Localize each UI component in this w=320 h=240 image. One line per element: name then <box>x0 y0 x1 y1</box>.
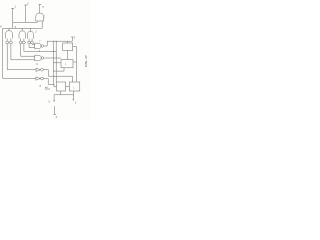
terminal stub S1 <box>53 106 57 119</box>
wire cone B1 output <box>43 70 72 82</box>
svg-text:FIG. 17: FIG. 17 <box>84 55 88 67</box>
svg-text:1: 1 <box>44 16 46 19</box>
wire from G3 to gate A1 <box>32 43 35 46</box>
wire K3 bottom out <box>54 91 61 101</box>
op-amp U1 (gate pointing up) <box>36 13 44 21</box>
svg-text:8: 8 <box>48 87 50 91</box>
input terminal T2 <box>24 2 29 23</box>
wire L3 <box>21 46 35 56</box>
arrow out1 <box>53 100 54 102</box>
gate G2 (NAND up, middle) <box>19 28 26 46</box>
wire between K3 K4 bottoms <box>61 94 74 96</box>
svg-text:8: 8 <box>40 84 42 88</box>
svg-text:2: 2 <box>35 29 37 33</box>
svg-text:1: 1 <box>14 5 16 9</box>
svg-text:2: 2 <box>75 101 77 105</box>
svg-text:4: 4 <box>39 49 41 53</box>
svg-text:7: 7 <box>39 39 41 43</box>
buffer cone B2 <box>36 77 43 80</box>
and-gate A1 <box>35 43 41 49</box>
wire bus A <box>52 41 55 85</box>
wire bus V0 <box>3 28 36 78</box>
wire cone B2 output <box>43 79 56 87</box>
wire L1 <box>7 46 36 69</box>
input terminal T1 <box>11 5 16 29</box>
wire K1 right <box>73 46 77 48</box>
wire into box K1 top <box>67 41 69 43</box>
wire H2 <box>3 21 43 28</box>
gate U1 output terminal <box>38 5 44 13</box>
box K3 <box>57 82 66 91</box>
wire K1 to K2 <box>67 51 69 60</box>
wire K4 bottom out <box>72 91 75 100</box>
gate G1 (NAND up, left) <box>6 28 13 46</box>
wire K2 right <box>73 61 77 63</box>
svg-text:9: 9 <box>36 62 38 66</box>
svg-text:2: 2 <box>74 36 76 40</box>
svg-text:3: 3 <box>27 2 29 6</box>
svg-text:1: 1 <box>73 86 75 89</box>
terminal above box K1 <box>71 36 76 42</box>
wire L2 <box>11 46 35 60</box>
wire H1 <box>13 21 38 22</box>
and-gate A2 <box>35 55 41 61</box>
wire K3 to K4 <box>66 86 70 88</box>
junction label mark <box>45 87 47 89</box>
wire A1 output <box>43 41 72 46</box>
wire bus Bv tap to K2 <box>53 61 61 64</box>
svg-text:1: 1 <box>65 63 67 66</box>
svg-text:4: 4 <box>56 115 58 119</box>
gate G3 (NAND up, right) <box>28 28 35 47</box>
wire K2 bottom <box>53 68 64 72</box>
wire bus R <box>76 47 78 82</box>
box K2 <box>61 60 73 68</box>
svg-text:6: 6 <box>49 100 51 104</box>
wire A2 output to K2 <box>44 57 61 59</box>
wire bus Bv <box>55 41 58 82</box>
wire L4 <box>24 46 56 51</box>
svg-text:5: 5 <box>42 5 44 9</box>
box K1 <box>63 43 73 51</box>
arrow out2 <box>73 99 74 101</box>
svg-text:8: 8 <box>0 25 2 29</box>
buffer cone B1 <box>36 68 43 71</box>
box K4 <box>69 82 80 91</box>
